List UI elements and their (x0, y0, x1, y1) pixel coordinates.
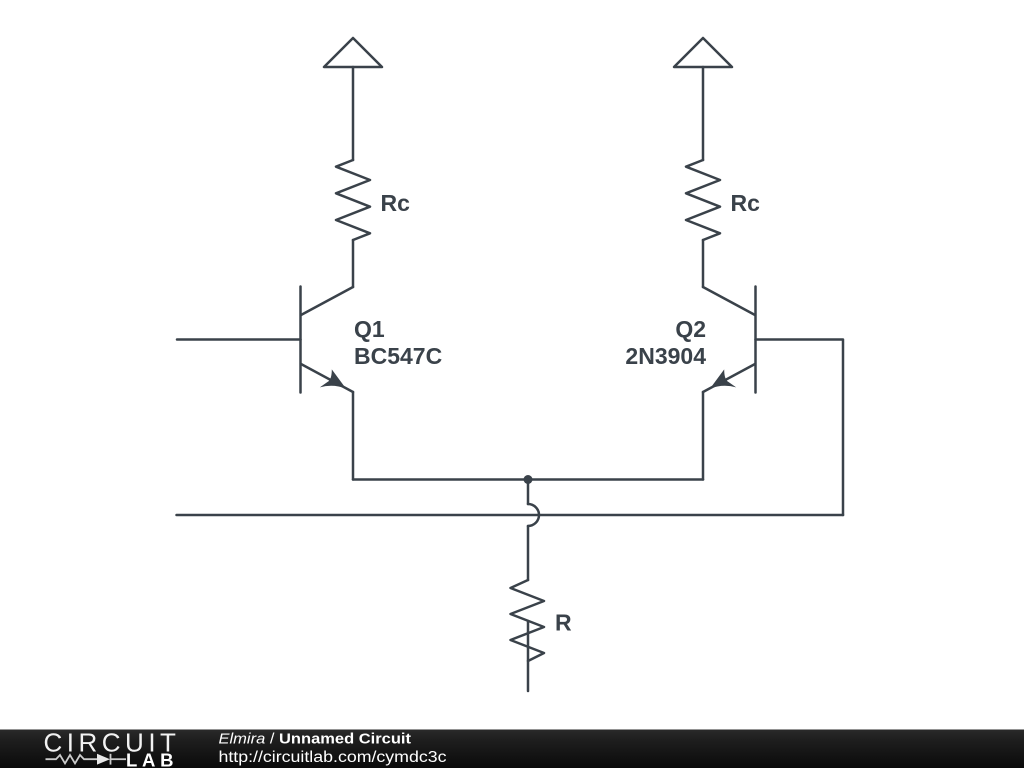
wire Q2 base to right bus (756, 340, 844, 516)
svg-text:BC547C: BC547C (354, 343, 442, 369)
wire Q2 emitter down (702, 392, 705, 480)
transistor Q2 collector diagonal (703, 287, 755, 315)
wire R bottom lead (527, 621, 530, 691)
svg-text:LAB: LAB (126, 750, 174, 768)
wire arrow V1 to Rc1 (352, 67, 355, 160)
wire Q1 base input (177, 338, 301, 341)
svg-text:Rc: Rc (731, 190, 761, 216)
svg-text:Q1: Q1 (354, 316, 385, 342)
transistor Q2 emitter diagonal (703, 364, 755, 392)
resistor Rc1 (336, 160, 370, 240)
transistor Q1 collector diagonal (301, 287, 353, 315)
transistor Q2 base bar (754, 287, 757, 393)
wire Rc1 to Q1 collector (352, 240, 355, 287)
svg-text:Elmira / Unnamed Circuit: Elmira / Unnamed Circuit (219, 732, 412, 748)
transistor Q2 emitter arrowhead (710, 369, 736, 388)
footer bar (0, 730, 1024, 768)
transistor Q1 emitter arrowhead (320, 369, 346, 388)
svg-text:http://circuitlab.com/cymdc3c: http://circuitlab.com/cymdc3c (219, 749, 447, 766)
transistor Q1 emitter diagonal (301, 364, 353, 392)
power supply arrow V2 (right) (674, 38, 732, 67)
wire hop over input bus (528, 504, 539, 526)
svg-text:2N3904: 2N3904 (625, 343, 706, 369)
wire emitter bus (353, 478, 703, 481)
wire Rc2 to Q2 collector (702, 240, 705, 287)
logo diode triangle (97, 754, 110, 765)
logo resistor-diode squiggle (46, 754, 127, 765)
svg-text:Q2: Q2 (675, 316, 706, 342)
node junction dot (524, 475, 533, 484)
power supply arrow V1 (left) (324, 38, 382, 67)
wire arrow V2 to Rc2 (702, 67, 705, 160)
wire hop to resistor R (527, 526, 530, 580)
wire Q1 emitter down (352, 392, 355, 480)
resistor Rc2 (686, 160, 720, 240)
wire input bus (long horizontal) (177, 514, 844, 517)
svg-text:Rc: Rc (381, 190, 411, 216)
transistor Q1 base bar (299, 287, 302, 393)
wire node to hop (527, 480, 530, 505)
resistor R (511, 580, 545, 661)
svg-text:R: R (555, 610, 572, 636)
